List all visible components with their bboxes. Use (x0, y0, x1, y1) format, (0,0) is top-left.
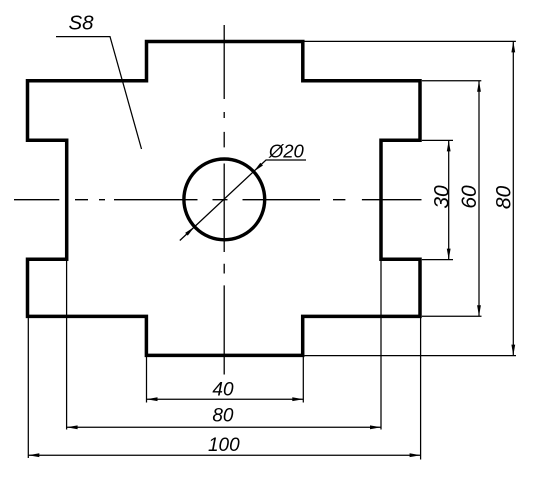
svg-text:80: 80 (493, 186, 516, 210)
svg-text:100: 100 (208, 435, 240, 456)
svg-text:40: 40 (212, 380, 234, 401)
svg-text:80: 80 (212, 405, 234, 426)
svg-text:Ø20: Ø20 (268, 141, 305, 162)
svg-text:30: 30 (430, 185, 453, 209)
svg-text:S8: S8 (68, 12, 94, 35)
svg-text:60: 60 (458, 185, 481, 209)
